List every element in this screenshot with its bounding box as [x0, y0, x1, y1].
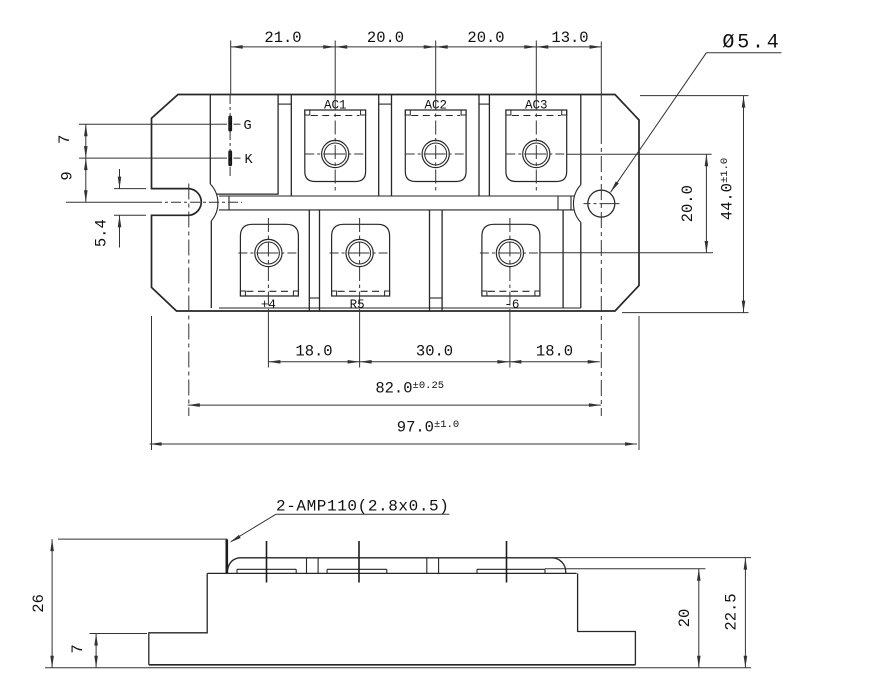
svg-text:Ø5.4: Ø5.4 [722, 32, 781, 55]
dimension 20.0 vertical line [705, 154, 707, 253]
module top extension for 44 dim [640, 95, 749, 97]
groove foot crossbars [309, 297, 319, 299]
R5 centerline extension [359, 218, 361, 311]
terminal -6 horizontal centerline [480, 252, 540, 254]
AC3 centerline extension [535, 41, 537, 97]
terminal +4 clamp corner squares [240, 291, 245, 296]
groove between AC2 and AC3 with tie [478, 95, 480, 197]
terminal AC2 screw hole [422, 140, 449, 167]
terminal pad floor segments with risers [237, 568, 296, 570]
mid groove tie rectangle right [557, 196, 559, 210]
dimension 7 side line [95, 634, 97, 668]
-6 centerline extension to 20.0 dim [541, 252, 714, 254]
G pin crosshair dashes [218, 123, 228, 125]
-6 centerline extension [509, 218, 511, 311]
terminal AC1 clamp corner squares [305, 110, 310, 115]
terminal AC3 pocket [506, 110, 567, 182]
terminal +4 pocket [240, 224, 298, 296]
mid horizontal groove lines [219, 195, 575, 197]
terminal R5 clamp corner squares [332, 291, 337, 296]
module right edge extension for 97 dim [638, 316, 640, 450]
module bottom extension for 44 dim [622, 312, 749, 314]
terminal R5 horizontal centerline [330, 252, 390, 254]
side view body shoulder line [207, 572, 576, 574]
slot centerline horizontal [66, 201, 152, 203]
svg-text:18.0: 18.0 [536, 343, 573, 361]
side view groove pair 1 [306, 558, 308, 574]
dimension 20.0 arrows and text [436, 45, 448, 49]
svg-text:K: K [244, 153, 253, 168]
extension line at K level [79, 157, 218, 159]
top dimension line [231, 46, 602, 48]
dimension 21.0 arrows and text [231, 45, 243, 49]
mid groove tie left [228, 196, 230, 210]
extension line top of tab for 26 dim [58, 538, 227, 540]
hole diameter callout leader [706, 52, 781, 54]
terminal AC2 horizontal centerline [406, 153, 466, 155]
extension line pad floor for 20 dim [545, 568, 705, 570]
svg-text:30.0: 30.0 [416, 343, 453, 361]
terminal AC3 clamp corner squares [506, 110, 511, 115]
svg-text:R5: R5 [350, 298, 365, 312]
groove between panel and AC1 with tie [290, 95, 292, 197]
dimension 18.0 arrows and text [268, 360, 280, 364]
terminal R5 pocket [332, 224, 390, 296]
terminal AC2 pocket [405, 110, 466, 182]
slot centerline vertical [188, 184, 190, 417]
dimension 13.0 arrows and text [536, 45, 548, 49]
+4 centerline extension [267, 218, 269, 311]
gate/cathode pin panel [209, 95, 211, 185]
cathode pin K [228, 150, 232, 166]
svg-text:21.0: 21.0 [264, 29, 301, 47]
dimension 44.0 vertical line [743, 96, 745, 313]
terminal AC3 horizontal centerline [506, 153, 566, 155]
terminal R5 clamp dashed line [338, 290, 384, 292]
dimension 82.0 line [188, 404, 601, 406]
dimension 18.0 arrows and text [509, 360, 521, 364]
terminal -6 screw hole [496, 239, 523, 266]
side view right body edge and flange [578, 573, 636, 664]
left moat arc around mounting slot [210, 184, 218, 221]
mounting hole centerline vertical [600, 42, 602, 129]
terminal +4 clamp dashed line [246, 290, 292, 292]
terminal +4 horizontal centerline [238, 252, 298, 254]
svg-text:13.0: 13.0 [551, 29, 588, 47]
dimension 30.0 arrows and text [360, 360, 372, 364]
dimension 20 line [698, 569, 700, 668]
svg-text:22.5: 22.5 [723, 593, 741, 630]
side view groove pair 2 [426, 558, 428, 574]
dimension 20.0 arrows and text [335, 45, 347, 49]
dimension 22.5 line [744, 558, 746, 668]
right mounting hole [588, 190, 615, 217]
svg-text:-6: -6 [504, 298, 519, 312]
dimension 7 line [85, 124, 87, 158]
bottom row block edges and grooves [210, 221, 212, 308]
svg-text:18.0: 18.0 [295, 343, 332, 361]
terminal AC1 pocket [305, 110, 366, 182]
terminal AC2 clamp corner squares [405, 110, 410, 115]
svg-text:G: G [243, 119, 251, 134]
terminal AC1 horizontal centerline [305, 153, 365, 155]
dimension 9 line [85, 158, 87, 202]
svg-text:20.0: 20.0 [367, 29, 404, 47]
svg-text:20: 20 [676, 609, 694, 628]
terminal -6 clamp dashed line [488, 290, 534, 292]
faston tab AMP110 [226, 539, 229, 573]
mounting hole horizontal centerline [584, 203, 620, 205]
svg-text:20.0: 20.0 [679, 185, 697, 222]
dimension 5.4 lines and arrows [119, 169, 121, 189]
extension line baseplate top for 7 dim [90, 633, 147, 635]
svg-text:5.4: 5.4 [93, 219, 111, 247]
terminal AC3 screw hole [523, 140, 550, 167]
K pin crosshair dashes [218, 157, 228, 159]
terminal R5 screw hole [346, 239, 373, 266]
G K centerline vertical [229, 95, 231, 178]
slot width extension lines [114, 188, 146, 190]
AC3 right edge down to moat [580, 95, 582, 185]
terminal -6 clamp corner squares [482, 291, 487, 296]
side view left body edge and flange [149, 573, 207, 664]
extension line cover top for 22.5 dim [552, 557, 751, 559]
terminal centerline ticks on side view [266, 541, 268, 583]
svg-text:7: 7 [69, 644, 87, 653]
svg-text:9: 9 [59, 171, 77, 180]
bottom baseline extension [45, 667, 751, 669]
G/K dim extension vertical [230, 41, 232, 96]
svg-text:20.0: 20.0 [467, 29, 504, 47]
terminal AC2 clamp dashed line [411, 115, 460, 117]
AC2 centerline extension [435, 41, 437, 97]
AC3 centerline extension to 20.0 dim [567, 153, 712, 155]
dimension 97.0 line [150, 443, 637, 445]
terminal -6 pocket [482, 224, 540, 296]
AMP110 leader and arrow [276, 513, 449, 515]
svg-text:7: 7 [56, 135, 74, 144]
groove between AC1 and AC2 with tie [378, 95, 380, 197]
terminal +4 screw hole [255, 239, 282, 266]
dimension 18.0 / 30.0 / 18.0 line [268, 361, 599, 363]
AC1 centerline extension [334, 41, 336, 97]
side view cover top with end fillets [227, 558, 566, 574]
module left edge extension for 97 dim [151, 316, 153, 450]
baseplate bottom edge [149, 664, 636, 666]
dimension 26 line [51, 539, 53, 668]
gate pin G [228, 116, 232, 132]
terminal AC3 clamp dashed line [512, 115, 561, 117]
terminal AC1 clamp dashed line [311, 115, 360, 117]
terminal AC1 screw hole [322, 140, 349, 167]
svg-text:26: 26 [30, 594, 48, 613]
module outline with corner chamfers and left mounting slot (top view) [152, 95, 640, 312]
island bottom line [219, 307, 581, 309]
extension line at G level [79, 123, 218, 125]
right moat arc around mounting hole [573, 185, 580, 223]
svg-text:2-AMP110(2.8x0.5): 2-AMP110(2.8x0.5) [276, 498, 449, 516]
